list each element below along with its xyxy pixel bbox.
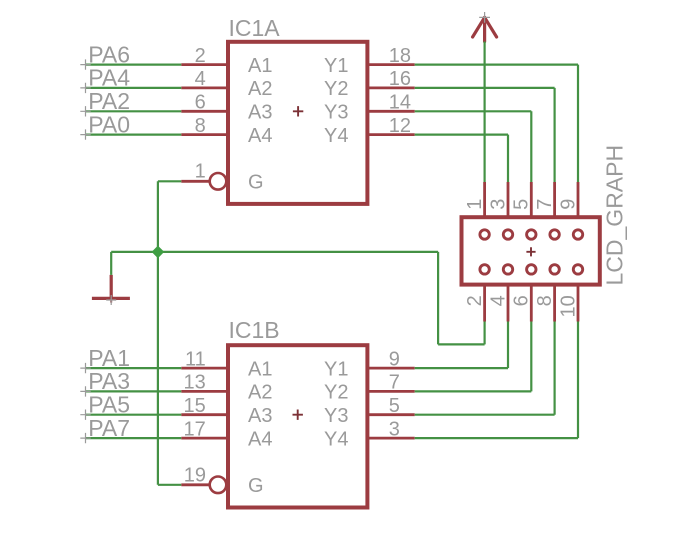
power symbol VCC arrow	[473, 17, 497, 41]
IC1A output pin stub pin 18	[367, 63, 414, 66]
wire G net horizontal segment to GND branch	[111, 251, 158, 253]
connector LCD_GRAPH box	[462, 217, 600, 284]
IC1A output pin stub pin 14	[367, 110, 414, 113]
IC1B polarity mark +	[293, 410, 303, 420]
svg-text:Y2: Y2	[324, 382, 348, 404]
wire Y4 pin12 to connector pin 3 horizontal segment	[415, 134, 508, 136]
wire G net horizontal segment towards connector pin 2	[158, 251, 438, 253]
IC1A output pin stub pin 12	[367, 133, 414, 136]
svg-text:5: 5	[511, 199, 533, 210]
wire IC1B Y2 pin7 to connector pin 6 horizontal segment	[415, 390, 532, 392]
svg-text:4: 4	[195, 68, 206, 90]
wire IC1B Y2 pin7 to connector pin 6 vertical segment	[530, 322, 532, 392]
wire IC1B Y1 pin9 to connector pin 4 horizontal segment	[415, 367, 508, 369]
svg-text:9: 9	[557, 199, 579, 210]
IC IC1B box	[228, 345, 367, 507]
net label origin cross PA7	[80, 433, 90, 443]
svg-text:PA7: PA7	[88, 415, 130, 441]
IC1A input pin stub pin 6	[181, 110, 227, 113]
svg-text:A3: A3	[248, 102, 272, 124]
svg-text:PA3: PA3	[88, 368, 130, 394]
IC1B input pin stub pin 17	[181, 437, 227, 440]
svg-text:IC1A: IC1A	[229, 15, 281, 41]
wire G net vertical segment joining IC1A G and IC1B G	[157, 181, 159, 485]
svg-text:Y4: Y4	[324, 428, 348, 450]
net label origin cross PA6	[80, 59, 90, 69]
svg-text:2: 2	[195, 45, 206, 67]
svg-text:Y3: Y3	[324, 405, 348, 427]
wire VCC net vertical segment to connector pin 1	[484, 42, 486, 183]
wire Y2 pin16 to connector pin 7 horizontal segment	[415, 87, 555, 89]
IC1A output pin stub pin 16	[367, 87, 414, 90]
svg-text:A4: A4	[248, 428, 272, 450]
wire G net vertical segment up to connector pin 2	[484, 322, 486, 345]
svg-text:G: G	[248, 172, 264, 194]
wire Y3 pin14 to connector pin 5 horizontal segment	[415, 110, 532, 112]
IC1A input pin stub pin 4	[181, 87, 227, 90]
svg-text:Y1: Y1	[324, 55, 348, 77]
svg-text:4: 4	[487, 295, 509, 306]
wire net PA3 to IC1B	[86, 390, 182, 392]
wire G net horizontal segment under connector	[438, 343, 485, 345]
IC1B input pin stub pin 11	[181, 367, 227, 370]
svg-text:Y4: Y4	[324, 125, 348, 147]
svg-text:14: 14	[389, 92, 411, 114]
wire IC1B Y3 pin5 to connector pin 8 vertical segment	[553, 322, 555, 415]
svg-text:11: 11	[185, 348, 206, 370]
IC1A input pin stub pin 2	[181, 63, 227, 66]
svg-text:7: 7	[389, 372, 400, 394]
svg-text:A1: A1	[248, 358, 272, 380]
svg-text:IC1B: IC1B	[229, 317, 280, 343]
svg-text:PA4: PA4	[88, 65, 130, 91]
wire Y4 pin12 to connector pin 3 vertical segment	[507, 135, 509, 182]
svg-text:10: 10	[557, 295, 579, 317]
svg-text:7: 7	[534, 199, 556, 210]
svg-text:A3: A3	[248, 405, 272, 427]
connector LCD_GRAPH pads row 1 (pins 1 3 5 7 9)	[480, 230, 489, 239]
svg-text:9: 9	[389, 348, 400, 370]
ground symbol GND	[92, 275, 130, 299]
wire net PA0 to IC1A	[86, 134, 182, 136]
IC1B output pin stub pin 5	[367, 413, 414, 416]
net label origin cross PA5	[80, 410, 90, 420]
wire Y2 pin16 to connector pin 7 vertical segment	[553, 88, 555, 182]
svg-text:PA0: PA0	[88, 111, 130, 137]
wire net PA1 to IC1B	[86, 367, 182, 369]
IC1B G pin stub pin 19	[181, 483, 209, 486]
wire Y3 pin14 to connector pin 5 vertical segment	[530, 111, 532, 182]
connector LCD_GRAPH bottom pin stubs pins 2 4 6 8 10	[483, 269, 486, 321]
connector LCD_GRAPH top pin stubs pins 1 3 5 7 9	[483, 182, 486, 235]
svg-text:1: 1	[195, 161, 206, 183]
wire G net IC1A G pin horizontal segment	[158, 180, 181, 182]
svg-text:G: G	[248, 475, 264, 497]
wire G net vertical segment down	[437, 252, 439, 345]
svg-text:5: 5	[389, 395, 400, 417]
wire GND branch vertical segment	[110, 252, 112, 275]
wire net PA6 to IC1A	[86, 63, 182, 65]
net label origin cross PA2	[80, 106, 90, 116]
svg-text:A2: A2	[248, 78, 272, 100]
wire net PA4 to IC1A	[86, 87, 182, 89]
IC1A input pin stub pin 8	[181, 133, 227, 136]
svg-text:13: 13	[184, 372, 206, 394]
net label origin cross PA0	[80, 129, 90, 139]
svg-text:LCD_GRAPH: LCD_GRAPH	[601, 145, 627, 286]
IC1A G pin stub pin 1	[181, 180, 209, 183]
svg-text:PA2: PA2	[88, 88, 130, 114]
svg-text:Y3: Y3	[324, 102, 348, 124]
svg-text:Y2: Y2	[324, 78, 348, 100]
svg-text:PA1: PA1	[88, 345, 130, 371]
wire Y1 pin18 to connector pin 9 vertical segment	[577, 65, 579, 182]
svg-text:17: 17	[184, 418, 206, 440]
wire net PA5 to IC1B	[86, 414, 182, 416]
svg-text:PA6: PA6	[88, 41, 130, 67]
wire IC1B Y3 pin5 to connector pin 8 horizontal segment	[415, 414, 555, 416]
svg-text:3: 3	[487, 199, 509, 210]
svg-text:8: 8	[195, 115, 206, 137]
svg-text:8: 8	[534, 295, 556, 306]
IC1A G inversion bubble	[210, 173, 227, 190]
svg-text:PA5: PA5	[88, 391, 130, 417]
svg-text:12: 12	[389, 115, 411, 137]
VCC symbol origin cross	[479, 12, 490, 23]
wire net PA7 to IC1B	[86, 437, 182, 439]
wire IC1B Y4 pin3 to connector pin 10 vertical segment	[577, 322, 579, 439]
svg-text:15: 15	[184, 395, 206, 417]
IC1B output pin stub pin 3	[367, 437, 414, 440]
IC1A polarity mark +	[293, 106, 303, 116]
IC1B output pin stub pin 7	[367, 390, 414, 393]
junction dot on G net	[152, 246, 165, 259]
connector LCD_GRAPH pads row 2 (pins 2 4 6 8 10)	[480, 265, 489, 274]
svg-text:A4: A4	[248, 125, 272, 147]
IC1B G inversion bubble	[210, 477, 227, 494]
GND symbol origin cross	[106, 295, 116, 305]
svg-text:6: 6	[195, 92, 206, 114]
svg-text:19: 19	[184, 464, 206, 486]
net label origin cross PA1	[80, 363, 90, 373]
net label origin cross PA3	[80, 386, 90, 396]
wire Y1 pin18 to connector pin 9 horizontal segment	[415, 63, 578, 65]
IC1B input pin stub pin 13	[181, 390, 227, 393]
IC IC1A box	[228, 42, 367, 204]
wire G net IC1B G pin horizontal segment	[158, 484, 181, 486]
IC1B output pin stub pin 9	[367, 367, 414, 370]
svg-text:2: 2	[464, 295, 486, 306]
svg-text:A2: A2	[248, 382, 272, 404]
net label origin cross PA4	[80, 83, 90, 93]
wire net PA2 to IC1A	[86, 110, 182, 112]
svg-text:18: 18	[389, 45, 411, 67]
svg-text:A1: A1	[248, 55, 272, 77]
connector polarity mark +	[526, 247, 535, 256]
IC1B input pin stub pin 15	[181, 413, 227, 416]
svg-text:1: 1	[464, 199, 486, 210]
wire IC1B Y1 pin9 to connector pin 4 vertical segment	[507, 322, 509, 369]
wire IC1B Y4 pin3 to connector pin 10 horizontal segment	[415, 437, 578, 439]
svg-text:3: 3	[389, 418, 400, 440]
svg-text:6: 6	[511, 295, 533, 306]
svg-text:Y1: Y1	[324, 358, 348, 380]
svg-text:16: 16	[389, 68, 411, 90]
